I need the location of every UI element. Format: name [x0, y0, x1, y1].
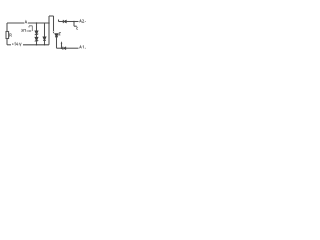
- junction dot branch1 top: [36, 22, 38, 24]
- probe arrowhead down: [53, 32, 55, 34]
- node A label: [25, 21, 27, 24]
- wire bottom horizontal: [23, 44, 49, 46]
- terminal A2 lead dash: [85, 21, 86, 23]
- wire branch1 vertical: [36, 23, 38, 31]
- wire left vertical upper: [6, 23, 8, 32]
- label +14 V digit 4: [16, 43, 18, 46]
- diode D7: [62, 20, 64, 23]
- junction dot branch1 bottom: [36, 44, 38, 46]
- wire branch2 vertical: [44, 23, 46, 37]
- terminal label A1 letter A: [79, 46, 81, 49]
- wire branch2 bottom: [44, 40, 46, 44]
- terminal A1 lead dash: [85, 47, 86, 49]
- label EP glyph P: [24, 29, 26, 31]
- label +14 V letter V: [19, 43, 21, 46]
- zener D2: [35, 37, 38, 40]
- gate arrowhead: [76, 26, 78, 27]
- label EP glyph E: [21, 29, 22, 31]
- wire corner to junction: [57, 47, 62, 49]
- wire top horizontal after node A: [28, 22, 49, 24]
- junction dot branch2 bottom: [44, 44, 45, 45]
- probe arrow: [27, 30, 31, 32]
- wire right vertical of loop: [48, 23, 50, 45]
- wire stem down from D5: [56, 37, 58, 48]
- wire gate horizontal: [74, 25, 76, 27]
- label R: [10, 34, 12, 37]
- label +14 V digit 1: [14, 43, 17, 46]
- junction dot bottom-right: [61, 47, 63, 49]
- label +14 V plus: [12, 43, 14, 45]
- gate label c: [76, 28, 78, 30]
- wire gate vertical: [73, 22, 75, 27]
- wire left vertical lower: [6, 39, 8, 45]
- wire top-right to diode: [59, 21, 64, 23]
- wire top-left horizontal segment: [7, 22, 24, 24]
- diode D6: [62, 47, 64, 50]
- wire branch1 middle: [36, 34, 38, 37]
- wire top-right out: [74, 21, 79, 23]
- wire arch right leg: [53, 16, 55, 31]
- junction dot right corner: [48, 22, 50, 24]
- terminal label A2 letter A: [79, 20, 81, 23]
- terminal label A1 digit 1: [82, 46, 85, 49]
- collector hook: [29, 26, 32, 31]
- wire top-right middle: [66, 21, 74, 23]
- zener D1: [35, 31, 38, 34]
- diode D5 under test: [55, 34, 58, 37]
- wire top-right start tick: [58, 20, 60, 22]
- probe arrow up: [61, 43, 63, 48]
- resistor R: [6, 32, 9, 39]
- label Z: [59, 32, 61, 35]
- wire branch1 bottom: [36, 41, 38, 45]
- diode D3: [43, 37, 46, 40]
- junction dot gate: [73, 21, 75, 23]
- wire arch left leg: [48, 16, 50, 23]
- terminal label A2 digit 2: [82, 20, 84, 23]
- wire bottom-right to diode: [62, 47, 63, 49]
- wire arch top: [49, 15, 54, 17]
- wire bottom-left horizontal: [7, 44, 11, 46]
- wire bottom-right out: [66, 47, 79, 49]
